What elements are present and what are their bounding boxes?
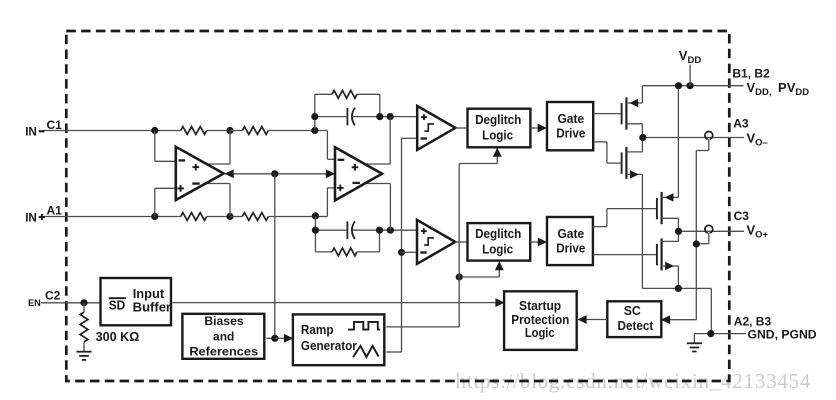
wire GateDrive1 to Q2 gate: [593, 141, 607, 143]
wire cap top right lead: [353, 116, 418, 118]
svg-text:A1: A1: [47, 204, 63, 218]
resistor R (series bottom, to integrator): [242, 213, 268, 221]
resistor R (series top, to integrator): [242, 127, 268, 135]
op-amp U1: [176, 147, 224, 200]
wire R lead top: [230, 130, 242, 132]
ground symbol (EN pulldown): [83, 342, 85, 352]
svg-text:C2: C2: [45, 289, 61, 303]
svg-text:Generator: Generator: [301, 338, 357, 353]
wire R to node bottom: [207, 216, 230, 218]
node junction U1 top feedback: [226, 127, 233, 134]
svg-text:Drive: Drive: [556, 126, 585, 141]
svg-text:Drive: Drive: [556, 241, 585, 256]
wire ramp square output to vertical: [386, 326, 459, 328]
block Ramp Generator: [293, 314, 384, 365]
comparator U4 (bottom): [417, 220, 455, 264]
arrowhead into Ramp Generator: [284, 334, 293, 343]
wire Q3 source up to VDD rail: [677, 86, 679, 198]
comparator U3 (top): [417, 106, 455, 150]
wire U1 bottom output stub: [206, 183, 230, 185]
wire GND pin line: [694, 333, 746, 335]
block Biases and References: [182, 314, 264, 359]
node junction U1 bottom feedback: [226, 213, 233, 220]
svg-text:Logic: Logic: [482, 127, 513, 142]
arrowhead into SC Detect: [661, 315, 670, 324]
svg-text:Logic: Logic: [482, 241, 513, 256]
node junction cap bottom left: [312, 227, 319, 234]
wire GateDrive2 to Q3 gate: [593, 226, 607, 228]
wire GateDrive2 to Q4 gate: [593, 254, 656, 256]
wire resistor to ground: [83, 303, 85, 312]
node junction VDD stub: [687, 82, 694, 89]
svg-text:C1: C1: [47, 118, 63, 132]
wire Q3 drain to output node: [677, 218, 679, 231]
pin C2 EN lead wire: [41, 302, 84, 304]
svg-text:Deglitch: Deglitch: [475, 112, 521, 127]
svg-text:References: References: [189, 344, 258, 358]
wire U1 top output stub: [206, 163, 230, 165]
block Startup Protection Logic: [504, 291, 577, 350]
pin C1 IN- lead wire: [42, 130, 155, 132]
wire R to node: [207, 130, 230, 132]
wire VDD rail: [642, 85, 743, 87]
node junction bottom comparator minus: [398, 249, 405, 256]
wire Input Buffer output to Startup: [173, 302, 498, 304]
wire U2 bottom output stub: [365, 183, 391, 185]
wire ramp to comparator minus inputs vertical: [401, 138, 403, 352]
wire Deglitch2 to GateDrive2: [530, 241, 539, 243]
svg-text:Deglitch: Deglitch: [475, 226, 521, 241]
transistor Q2 (low-side NMOS, V_O-): [621, 152, 623, 173]
block Gate Drive 2: [547, 217, 593, 265]
wire interstage down to bias node: [274, 174, 276, 338]
node junction IN+ input: [151, 213, 158, 220]
wire U2 top output stub: [365, 163, 391, 165]
svg-text:IN: IN: [25, 125, 37, 138]
svg-text:A2, B3: A2, B3: [734, 314, 772, 328]
node junction U2 top output: [387, 113, 394, 120]
svg-text:B1, B2: B1, B2: [732, 67, 770, 81]
svg-text:Gate: Gate: [558, 111, 585, 126]
svg-text:Gate: Gate: [558, 226, 585, 241]
wire U4 output: [455, 241, 467, 243]
node junction IN- input: [151, 127, 158, 134]
wire V_O- tap down: [708, 139, 710, 150]
svg-text:Logic: Logic: [525, 325, 555, 340]
svg-text:SC: SC: [624, 303, 642, 318]
svg-text:EN: EN: [28, 298, 41, 308]
IC boundary dashed box: [66, 31, 729, 381]
wire Q2 source down to ground rail: [641, 174, 643, 288]
node junction ramp feed: [456, 273, 463, 280]
wire top comparator minus input: [402, 137, 418, 139]
node junction integrator top input: [311, 127, 318, 134]
node junction cap top right: [376, 113, 383, 120]
resistor R (U2 top feedback): [332, 90, 357, 98]
wire Q2 drain to output node: [641, 138, 643, 152]
wire U1 to U2 link: [224, 173, 335, 175]
transistor Q4 (low-side NMOS, V_O+): [656, 244, 658, 265]
wire cap bottom right lead: [353, 229, 418, 231]
output tap loop V_O+: [705, 225, 713, 233]
node junction interstage: [271, 170, 278, 177]
wire bottom comparator minus input: [402, 251, 418, 253]
node junction V_O+: [675, 228, 682, 235]
node junction V_O-: [639, 134, 646, 141]
capacitor C (U2 top feedback): [346, 108, 348, 126]
svg-text:Detect: Detect: [618, 318, 654, 333]
arrowhead into U2 input: [326, 169, 335, 178]
resistor R (IN+ feedback bottom): [181, 213, 207, 221]
wire IN- to R1: [155, 130, 181, 132]
wire ground rail: [642, 287, 711, 289]
block Deglitch Logic 1: [468, 109, 531, 148]
wire Q4 drain to output node: [677, 231, 679, 241]
wire IN- jog down to U1 inverting input: [154, 131, 156, 162]
wire ramp feed to Deglitch2: [459, 276, 499, 278]
transistor Q1 (high-side PMOS, V_O-): [621, 103, 623, 124]
resistor 300 KOhm pulldown: [80, 312, 88, 342]
output tap loop V_O-: [705, 131, 713, 139]
svg-text:Ramp: Ramp: [301, 322, 334, 337]
arrowhead into Startup from SC: [577, 315, 586, 324]
wire cap top left lead: [315, 116, 348, 118]
node junction bias: [271, 335, 278, 342]
wire ramp vertical to deglitch feeds: [458, 164, 460, 327]
node junction ground rail: [675, 285, 682, 292]
wire ramp feed to Deglitch1: [459, 163, 497, 165]
resistor R (IN- feedback top): [181, 127, 207, 135]
node junction output sense: [693, 240, 700, 247]
svg-text:300 KΩ: 300 KΩ: [96, 330, 140, 344]
wire top feedback right rail: [357, 93, 380, 95]
wire IN+ jog up to U1 non-inverting input: [154, 188, 156, 216]
wire bias node to Ramp Generator: [275, 337, 286, 339]
svg-text:SD: SD: [109, 297, 126, 312]
pin A1 IN+ lead wire: [42, 216, 155, 218]
capacitor C (U2 bottom feedback): [346, 221, 348, 239]
svg-text:GND, PGND: GND, PGND: [748, 328, 817, 342]
op-amp U2: [335, 147, 382, 200]
node junction cap bottom right: [376, 227, 383, 234]
resistor R (U2 bottom feedback): [332, 248, 357, 256]
wire into U2 non-inverting input: [315, 216, 327, 218]
wire Q1 source to VDD rail: [641, 86, 643, 103]
node junction GND: [707, 330, 714, 337]
block SD Input Buffer: [101, 278, 172, 325]
wire V_O+ output line: [679, 230, 745, 232]
svg-text:IN: IN: [25, 211, 37, 224]
wire R lead bottom: [230, 216, 242, 218]
wire top feedback left rail: [314, 94, 316, 130]
wire VDD label stub: [689, 65, 691, 86]
wire EN to Input Buffer: [84, 302, 101, 304]
block Deglitch Logic 2: [468, 223, 531, 261]
svg-text:Biases: Biases: [204, 314, 244, 328]
wire cap bottom left lead: [315, 229, 347, 231]
svg-text:and: and: [213, 329, 234, 343]
block Gate Drive 1: [547, 102, 593, 150]
wire bottom feedback right rail: [357, 251, 380, 253]
wire ramp triangle output to vertical: [386, 351, 401, 353]
wire sense line into SC Detect: [668, 319, 696, 321]
arrowhead into Deglitch1 bottom: [493, 148, 502, 157]
wire GateDrive1 to Q1 gate: [593, 113, 620, 115]
ground symbol (output stage): [693, 334, 695, 344]
wire IN+ to R2: [155, 216, 181, 218]
arrowhead into U1 output: [225, 169, 234, 178]
arrowhead into Startup from buffer: [495, 298, 504, 307]
node junction U2 bottom output: [387, 227, 394, 234]
arrowhead into GateDrive2: [538, 238, 547, 247]
wire into U2 inverting input: [315, 130, 328, 132]
arrowhead into GateDrive1: [538, 124, 547, 133]
wire SC Detect to Startup: [585, 319, 607, 321]
wire Q1 drain to output node: [641, 124, 643, 138]
node junction cap top left: [311, 113, 318, 120]
wire U3 output: [455, 127, 467, 129]
svg-text:A3: A3: [733, 117, 749, 131]
block SC Detect: [607, 301, 661, 337]
wire Q4 source to ground rail: [677, 266, 679, 288]
wire bottom feedback left rail: [314, 216, 316, 252]
arrowhead into Deglitch2 bottom: [495, 261, 504, 270]
wire V_O- output line: [643, 137, 744, 139]
node junction EN: [80, 299, 87, 306]
node junction integrator bottom input: [312, 212, 319, 219]
transistor Q3 (high-side PMOS, V_O+): [656, 198, 658, 219]
node junction VDD to Q3: [675, 82, 682, 89]
wire Biases to bias node: [266, 337, 275, 339]
wire Deglitch1 to GateDrive1: [530, 127, 539, 129]
wire ground rail down to GND pin: [710, 288, 712, 333]
svg-text:C3: C3: [734, 209, 750, 223]
svg-text:Buffer: Buffer: [133, 300, 171, 315]
wire V_O+ tap down: [708, 233, 710, 244]
